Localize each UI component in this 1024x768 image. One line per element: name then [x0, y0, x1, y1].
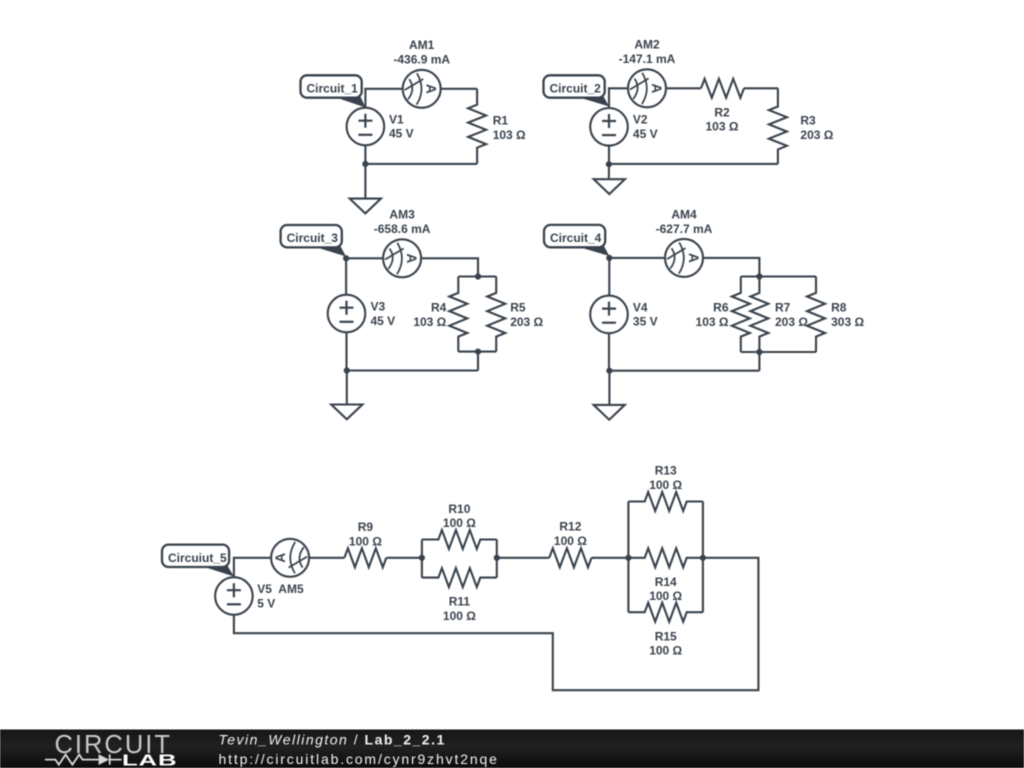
- wire block left: [421, 540, 423, 578]
- svg-text:AM4: AM4: [671, 208, 697, 222]
- svg-text:Tevin_Wellington / Lab_2_2.1: Tevin_Wellington / Lab_2_2.1: [219, 732, 446, 748]
- resistor R3: [769, 88, 787, 164]
- label Circuit_1 flag: [333, 97, 366, 108]
- svg-text:-627.7 mA: -627.7 mA: [656, 222, 713, 236]
- resistor R9: [344, 548, 386, 567]
- svg-text:100 Ω: 100 Ω: [649, 589, 682, 603]
- ammeter AM5: [271, 539, 309, 577]
- node parallel top: [475, 273, 481, 279]
- resistor R2: [701, 79, 744, 98]
- svg-text:R15: R15: [655, 629, 677, 643]
- wire block to rail: [758, 352, 760, 371]
- wire AM5 to R9: [309, 557, 345, 559]
- svg-text:45 V: 45 V: [371, 314, 396, 328]
- svg-text:303 Ω: 303 Ω: [831, 315, 864, 329]
- voltage source V3: [328, 295, 366, 333]
- svg-text:V4: V4: [633, 300, 648, 314]
- svg-text:35 V: 35 V: [633, 315, 658, 329]
- svg-text:R11: R11: [449, 595, 471, 609]
- svg-text:100 Ω: 100 Ω: [443, 609, 476, 623]
- svg-text:R10: R10: [448, 502, 470, 516]
- wire bottom bar: [741, 351, 816, 353]
- svg-text:Circuit_4: Circuit_4: [550, 231, 602, 245]
- voltage source V2: [590, 108, 628, 146]
- label Circuit_3 flag: [313, 246, 346, 256]
- node junction: [606, 161, 612, 167]
- wire block to R12: [497, 557, 550, 559]
- node junction: [362, 161, 368, 167]
- wire bottom rail: [609, 370, 759, 372]
- svg-text:203 Ω: 203 Ω: [510, 315, 543, 329]
- wire R9 to block: [386, 557, 422, 559]
- svg-text:45 V: 45 V: [633, 127, 658, 141]
- node junction: [344, 367, 350, 373]
- resistor R11: [422, 568, 497, 587]
- svg-text:Circuit_1: Circuit_1: [307, 82, 359, 96]
- wire V1 bottom: [364, 145, 366, 164]
- svg-text:R7: R7: [775, 301, 791, 315]
- wire bottom rail: [347, 369, 478, 371]
- ground: [594, 179, 625, 194]
- resistor R6: [732, 277, 750, 353]
- svg-text:R14: R14: [655, 575, 677, 589]
- svg-text:A: A: [273, 553, 288, 563]
- svg-text:Circuit_2: Circuit_2: [550, 82, 602, 96]
- voltage source V4: [590, 296, 628, 334]
- wire top bar: [741, 275, 816, 277]
- svg-text:A: A: [686, 253, 701, 263]
- svg-text:V3: V3: [371, 299, 386, 313]
- label Circuiut_5 flag: [201, 566, 234, 577]
- svg-text:R2: R2: [714, 106, 730, 120]
- svg-text:AM3: AM3: [389, 208, 415, 222]
- wire to ground: [608, 164, 610, 179]
- resistor R10: [422, 530, 497, 549]
- node node Circuit_4: [606, 255, 612, 261]
- resistor R8: [807, 277, 825, 353]
- svg-text:AM1: AM1: [409, 38, 435, 52]
- svg-text:http://circuitlab.com/cynr9zhv: http://circuitlab.com/cynr9zhvt2nqe: [219, 751, 499, 767]
- svg-text:203 Ω: 203 Ω: [775, 315, 808, 329]
- wire AM1 to R1: [441, 88, 477, 90]
- resistor R14: [628, 548, 703, 567]
- ammeter AM2: [628, 69, 666, 107]
- svg-text:103 Ω: 103 Ω: [696, 315, 729, 329]
- resistor R1: [468, 89, 486, 164]
- svg-text:45 V: 45 V: [389, 127, 414, 141]
- svg-text:R12: R12: [559, 520, 581, 534]
- wire block right: [496, 540, 498, 578]
- svg-text:100 Ω: 100 Ω: [349, 535, 382, 549]
- svg-text:R8: R8: [831, 301, 847, 315]
- wire top bar: [458, 275, 496, 277]
- svg-text:100 Ω: 100 Ω: [649, 478, 682, 492]
- svg-text:103 Ω: 103 Ω: [413, 315, 446, 329]
- ammeter AM1: [403, 70, 441, 108]
- ground: [331, 405, 362, 420]
- label Circuit_4 flag: [576, 246, 609, 256]
- svg-text:R1: R1: [493, 113, 509, 127]
- ground: [594, 405, 625, 420]
- svg-text:100 Ω: 100 Ω: [554, 534, 587, 548]
- svg-text:Circuiut_5: Circuiut_5: [168, 551, 227, 565]
- voltage source V1: [347, 108, 385, 146]
- svg-text:Circuit_3: Circuit_3: [287, 231, 339, 245]
- svg-text:R3: R3: [800, 114, 816, 128]
- wire node to V3: [345, 258, 347, 294]
- wire to ground: [608, 371, 610, 405]
- wire AM4 to parallel block: [703, 258, 760, 277]
- wire V2 top to AM2: [609, 88, 628, 108]
- svg-text:AM2: AM2: [634, 38, 660, 52]
- wire to ground: [346, 371, 348, 405]
- svg-text:103 Ω: 103 Ω: [493, 128, 526, 142]
- svg-text:A: A: [649, 83, 664, 93]
- svg-text:103 Ω: 103 Ω: [706, 120, 739, 134]
- wire to ground: [364, 164, 366, 199]
- svg-text:5 V: 5 V: [257, 596, 275, 610]
- wire R12 to block2: [592, 557, 629, 559]
- svg-text:LAB: LAB: [122, 752, 177, 768]
- resistor R12: [549, 548, 591, 567]
- wire AM2 to R2: [666, 87, 701, 89]
- svg-text:AM5: AM5: [278, 582, 304, 596]
- node block right: [494, 555, 500, 561]
- wire node to AM3: [346, 257, 383, 259]
- node block left: [419, 555, 425, 561]
- wire V2 bottom: [608, 146, 610, 164]
- node block2 right: [700, 555, 706, 561]
- wire node to V4: [608, 258, 610, 296]
- node block2 left: [625, 555, 631, 561]
- wire V4 bottom: [608, 333, 610, 371]
- wire V1 top to AM1: [365, 89, 402, 108]
- svg-text:A: A: [404, 253, 419, 263]
- svg-text:-147.1 mA: -147.1 mA: [619, 52, 676, 66]
- wire block to rail: [477, 352, 479, 371]
- svg-text:R6: R6: [713, 301, 729, 315]
- resistor R7: [750, 277, 768, 353]
- svg-text:-658.6 mA: -658.6 mA: [374, 222, 431, 236]
- resistor R15: [628, 603, 703, 622]
- resistor R4: [449, 277, 467, 352]
- ground: [350, 199, 381, 214]
- wire V3 bottom: [345, 332, 347, 370]
- node junction: [606, 368, 612, 374]
- svg-text:100 Ω: 100 Ω: [649, 644, 682, 658]
- svg-text:R4: R4: [431, 301, 447, 315]
- wire block2 right: [702, 502, 704, 613]
- voltage source V5: [215, 577, 253, 615]
- wire bottom rail: [365, 163, 477, 165]
- ammeter AM4: [665, 239, 703, 277]
- svg-text:V2: V2: [633, 113, 648, 127]
- wire V5 top to AM5: [234, 558, 271, 578]
- svg-text:A: A: [424, 84, 439, 94]
- wire bottom rail: [609, 163, 778, 165]
- logo resistor-diode glyph: [45, 754, 122, 764]
- svg-text:R5: R5: [510, 301, 526, 315]
- wire R2 to R3: [744, 87, 778, 89]
- svg-text:-436.9 mA: -436.9 mA: [393, 53, 450, 67]
- label Circuit_2 flag: [576, 97, 609, 107]
- wire AM3 to parallel block: [421, 258, 478, 276]
- svg-text:R13: R13: [655, 463, 677, 477]
- wire node to AM4: [609, 257, 665, 259]
- svg-text:203 Ω: 203 Ω: [800, 128, 833, 142]
- svg-text:100 Ω: 100 Ω: [443, 516, 476, 530]
- node parallel top: [756, 273, 762, 279]
- node parallel bottom: [756, 349, 762, 355]
- svg-text:R9: R9: [358, 520, 374, 534]
- resistor R5: [487, 277, 505, 352]
- wire bottom bar: [458, 351, 496, 353]
- node parallel bottom: [475, 349, 481, 355]
- svg-text:V1: V1: [389, 112, 404, 126]
- resistor R13: [628, 492, 703, 511]
- ammeter AM3: [383, 239, 421, 277]
- wire block2 left: [627, 502, 629, 613]
- wire return path: [234, 558, 759, 690]
- svg-text:V5: V5: [257, 582, 272, 596]
- node node Circuit_3: [343, 255, 349, 261]
